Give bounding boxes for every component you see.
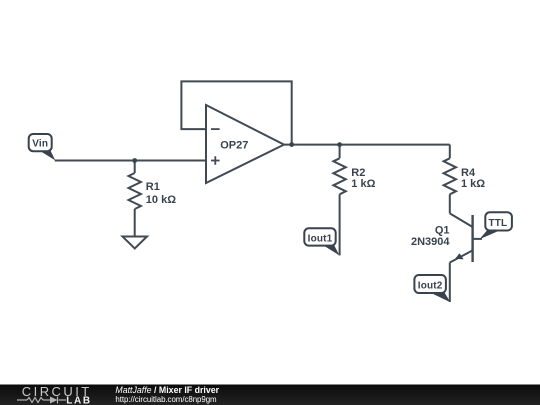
- svg-text:http://circuitlab.com/c8np9gm: http://circuitlab.com/c8np9gm: [115, 395, 217, 404]
- svg-text:R1: R1: [146, 181, 160, 193]
- svg-text:Iout2: Iout2: [418, 280, 443, 291]
- svg-text:LAB: LAB: [66, 395, 91, 405]
- svg-text:MattJaffe / Mixer IF driver: MattJaffe / Mixer IF driver: [115, 385, 219, 395]
- svg-text:2N3904: 2N3904: [411, 236, 450, 248]
- svg-text:OP27: OP27: [220, 139, 248, 151]
- svg-text:Vin: Vin: [32, 138, 48, 149]
- svg-text:10 kΩ: 10 kΩ: [146, 194, 176, 206]
- svg-text:TTL: TTL: [489, 218, 508, 229]
- svg-text:Iout1: Iout1: [308, 233, 333, 244]
- svg-text:1 kΩ: 1 kΩ: [351, 178, 375, 190]
- svg-text:Q1: Q1: [435, 224, 450, 236]
- svg-text:R2: R2: [351, 167, 365, 179]
- svg-text:R4: R4: [461, 167, 476, 179]
- svg-text:1 kΩ: 1 kΩ: [461, 178, 485, 190]
